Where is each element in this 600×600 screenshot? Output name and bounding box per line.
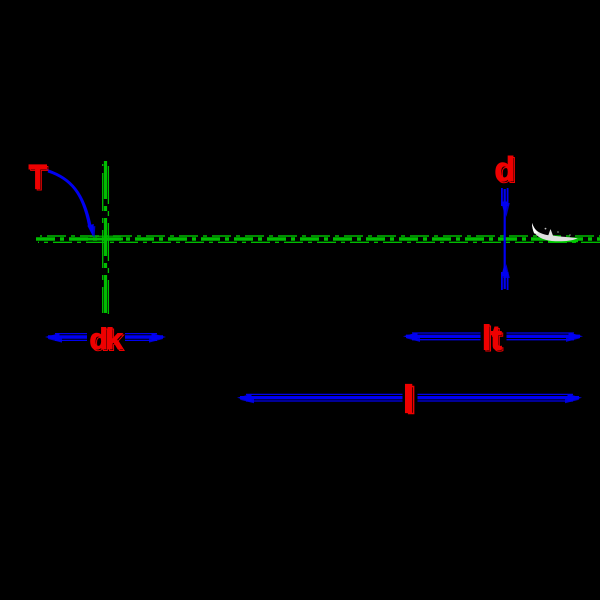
label lt (black halo + text) <box>481 320 507 360</box>
svg-text:l: l <box>406 381 416 422</box>
svg-text:T: T <box>30 160 48 198</box>
label T (socket size) <box>29 159 49 199</box>
label l (black halo + text) <box>403 379 418 422</box>
svg-text:lt: lt <box>484 321 503 359</box>
label dk (black halo + text) <box>87 323 125 358</box>
label d <box>495 151 517 191</box>
svg-text:d: d <box>496 153 517 191</box>
crosshair junction at head centre <box>88 224 123 256</box>
dimension l (total length) <box>237 394 582 403</box>
screw tip highlight (white sliver) <box>532 223 578 241</box>
svg-text:dk: dk <box>91 325 124 358</box>
leader arrow from T to socket <box>47 170 96 239</box>
centerline vertical (head front view) <box>103 161 109 315</box>
dimension lt (thread length) <box>403 333 583 342</box>
dimension d (thread diameter), vertical at x=505 <box>501 188 510 290</box>
dimension dk (head diameter) <box>45 333 166 342</box>
centerline horizontal (screw axis) <box>36 236 600 242</box>
